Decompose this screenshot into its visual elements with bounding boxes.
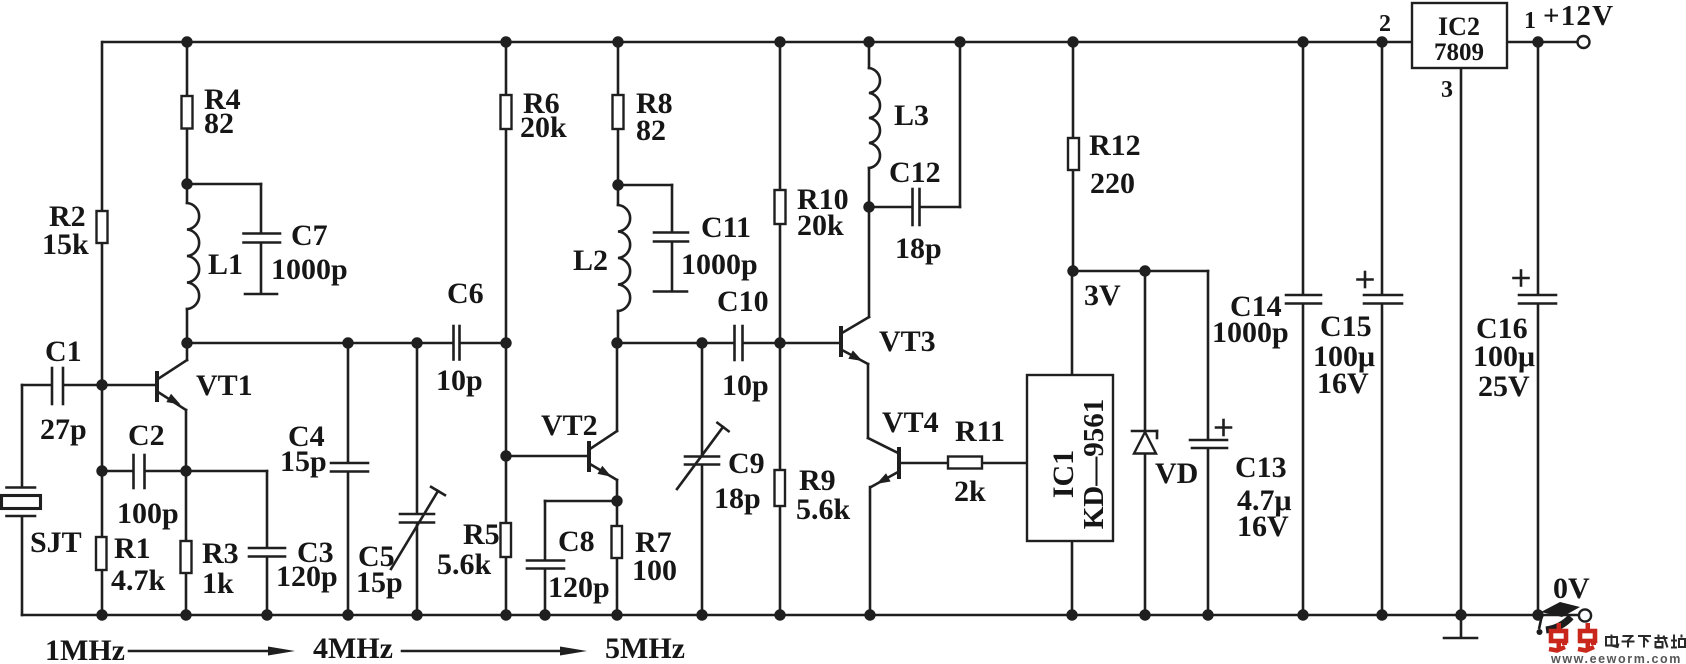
svg-text:C15: C15 xyxy=(1320,310,1372,343)
svg-text:10p: 10p xyxy=(436,364,483,397)
svg-text:27p: 27p xyxy=(40,413,87,446)
svg-text:+12V: +12V xyxy=(1543,0,1614,32)
svg-text:82: 82 xyxy=(204,107,234,140)
svg-text:20k: 20k xyxy=(797,209,844,242)
svg-text:1: 1 xyxy=(1524,8,1536,34)
svg-text:L3: L3 xyxy=(894,99,929,132)
svg-text:4.7k: 4.7k xyxy=(111,564,166,597)
svg-text:C12: C12 xyxy=(889,156,941,189)
svg-text:16V: 16V xyxy=(1317,367,1369,400)
svg-text:SJT: SJT xyxy=(30,526,82,559)
svg-text:120p: 120p xyxy=(548,571,610,604)
svg-text:1k: 1k xyxy=(202,567,234,600)
svg-text:82: 82 xyxy=(636,114,666,147)
svg-text:C13: C13 xyxy=(1235,451,1287,484)
svg-text:2k: 2k xyxy=(954,475,986,508)
svg-text:15p: 15p xyxy=(280,445,327,478)
svg-text:KD—9561: KD—9561 xyxy=(1078,399,1110,530)
svg-text:1MHz: 1MHz xyxy=(45,634,125,664)
svg-text:5.6k: 5.6k xyxy=(796,493,851,526)
svg-text:C10: C10 xyxy=(717,285,769,318)
svg-text:VD: VD xyxy=(1155,457,1198,490)
svg-text:VT1: VT1 xyxy=(196,369,253,402)
svg-text:3: 3 xyxy=(1441,77,1453,103)
svg-text:C8: C8 xyxy=(558,525,595,558)
svg-text:100: 100 xyxy=(632,554,677,587)
svg-text:16V: 16V xyxy=(1237,510,1289,543)
svg-text:L1: L1 xyxy=(208,248,243,281)
svg-text:C7: C7 xyxy=(291,219,328,252)
svg-text:120p: 120p xyxy=(276,560,338,593)
svg-text:VT3: VT3 xyxy=(879,325,936,358)
svg-text:20k: 20k xyxy=(520,111,567,144)
svg-text:15k: 15k xyxy=(42,228,89,261)
svg-text:R11: R11 xyxy=(955,415,1005,448)
svg-text:IC2: IC2 xyxy=(1438,12,1480,41)
svg-text:C2: C2 xyxy=(128,419,165,452)
svg-text:18p: 18p xyxy=(895,232,942,265)
svg-text:2: 2 xyxy=(1379,11,1391,37)
svg-text:C1: C1 xyxy=(45,335,82,368)
svg-text:3V: 3V xyxy=(1084,279,1121,312)
svg-text:1000p: 1000p xyxy=(681,248,758,281)
svg-text:7809: 7809 xyxy=(1434,39,1484,66)
svg-text:R3: R3 xyxy=(202,537,239,570)
svg-text:IC1: IC1 xyxy=(1047,450,1080,498)
svg-text:1000p: 1000p xyxy=(271,253,348,286)
svg-text:1000p: 1000p xyxy=(1212,316,1289,349)
svg-text:R1: R1 xyxy=(114,532,151,565)
svg-text:C11: C11 xyxy=(701,211,751,244)
svg-text:R5: R5 xyxy=(463,518,500,551)
svg-text:L2: L2 xyxy=(573,244,608,277)
svg-text:10p: 10p xyxy=(722,369,769,402)
svg-text:220: 220 xyxy=(1090,167,1135,200)
svg-text:25V: 25V xyxy=(1478,370,1530,403)
svg-text:www.eeworm.com: www.eeworm.com xyxy=(1550,652,1682,664)
svg-text:0V: 0V xyxy=(1553,572,1590,605)
svg-text:R12: R12 xyxy=(1089,129,1141,162)
svg-text:VT2: VT2 xyxy=(541,409,598,442)
svg-text:100p: 100p xyxy=(117,497,179,530)
svg-text:C6: C6 xyxy=(447,277,484,310)
svg-text:5MHz: 5MHz xyxy=(605,632,685,664)
svg-text:VT4: VT4 xyxy=(882,406,939,439)
svg-text:15p: 15p xyxy=(356,566,403,599)
svg-text:18p: 18p xyxy=(714,482,761,515)
svg-text:C9: C9 xyxy=(728,447,765,480)
svg-text:5.6k: 5.6k xyxy=(437,548,492,581)
svg-text:100μ: 100μ xyxy=(1473,340,1535,373)
svg-text:4MHz: 4MHz xyxy=(313,632,393,664)
